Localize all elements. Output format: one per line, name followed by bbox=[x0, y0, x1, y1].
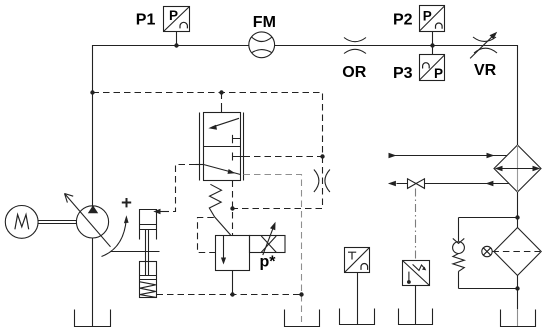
svg-text:P: P bbox=[434, 66, 443, 81]
svg-text:P1: P1 bbox=[136, 12, 156, 29]
svg-text:FM: FM bbox=[253, 14, 276, 31]
svg-text:P: P bbox=[423, 8, 432, 23]
svg-text:P2: P2 bbox=[393, 12, 413, 29]
svg-text:OR: OR bbox=[342, 64, 366, 81]
svg-text:P: P bbox=[169, 8, 178, 23]
svg-text:p*: p* bbox=[260, 254, 277, 271]
svg-text:VR: VR bbox=[474, 62, 497, 79]
svg-text:P3: P3 bbox=[393, 65, 413, 82]
